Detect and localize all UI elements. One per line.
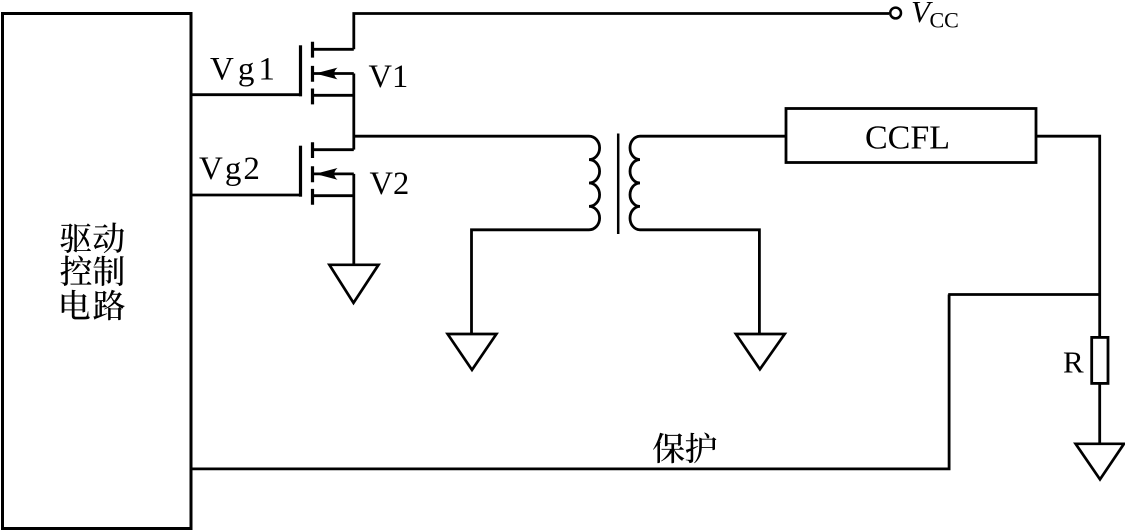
wire: secondary return to ground — [640, 230, 759, 334]
ground: secondary return — [736, 334, 785, 369]
svg-text:Vg2: Vg2 — [199, 151, 262, 187]
ground: primary return — [448, 334, 497, 370]
wire: sense node branch — [948, 293, 1099, 296]
svg-text:CC: CC — [930, 8, 959, 33]
label: 驱动控制电路 (drive control circuit) — [60, 222, 124, 320]
transformer T primary winding (4 turns) — [589, 136, 600, 230]
svg-text:V2: V2 — [370, 166, 410, 202]
wire: primary return to ground — [472, 230, 590, 334]
svg-text:V1: V1 — [369, 59, 409, 95]
block: drive control circuit box — [3, 14, 192, 529]
ground: below V2 — [329, 265, 378, 303]
terminal: VCC open circle — [890, 8, 901, 19]
label: 保护 (protection) — [653, 432, 716, 463]
resistor R (sense resistor) — [1092, 337, 1108, 383]
svg-text:Vg1: Vg1 — [210, 52, 279, 88]
wire: Vg1 gate lead from control box to V1 gate — [191, 93, 302, 96]
svg-text:R: R — [1063, 345, 1084, 380]
wire: R to ground — [1098, 383, 1101, 443]
transformer T secondary winding (4 turns) — [630, 136, 640, 230]
wire: Vg2 gate lead from control box to V2 gate — [191, 194, 302, 197]
wire: V1 source / V2 drain node (half-bridge midpoint) — [352, 74, 355, 150]
transformer core — [617, 134, 620, 235]
wire: CCFL return down to current-sense node — [1036, 136, 1100, 337]
wire: secondary to CCFL — [640, 135, 786, 138]
transistor V2 (N-channel MOSFET): gate bar, dashed channel, drain/body/source taps, body arrow — [301, 142, 354, 205]
label: VCC — [911, 0, 959, 33]
svg-text:CCFL: CCFL — [865, 119, 950, 156]
wire: midpoint to transformer primary — [354, 135, 589, 138]
ground: below R — [1076, 444, 1124, 480]
lamp: CCFL box — [786, 109, 1036, 163]
wire: V1 drain up to VCC rail — [354, 14, 889, 50]
wire: V2 source down to ground — [352, 174, 355, 265]
transistor V1 (N-channel MOSFET): gate bar, dashed channel, drain/body/source taps, body arrow — [301, 42, 354, 105]
wire: protection feedback to control box — [191, 295, 949, 469]
